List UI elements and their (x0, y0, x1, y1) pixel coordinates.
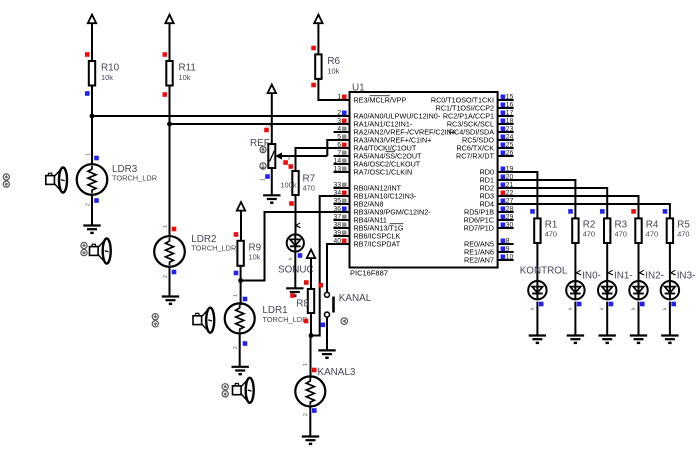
svg-text:R11: R11 (179, 63, 197, 74)
pin number k led IN2- (631, 307, 637, 310)
svg-text:RB7/ICSPDAT: RB7/ICSPDAT (354, 239, 401, 248)
pin state indicator (94, 156, 99, 161)
pot adjust control plus (260, 147, 266, 153)
svg-text:IN1-: IN1- (614, 270, 633, 281)
label LDR1 TORCH_LDR (262, 305, 307, 324)
pin number 3 pot (288, 156, 291, 162)
pin state indicator (243, 341, 248, 346)
label KANAL (339, 293, 372, 304)
svg-text:2: 2 (266, 124, 272, 127)
label KONTROL (520, 265, 568, 276)
svg-text:470: 470 (646, 230, 658, 239)
wire KANAL3 to ground (309, 406, 311, 437)
label R7 470 (303, 174, 316, 193)
photoresistor LDR2 (154, 236, 185, 267)
svg-text:17: 17 (506, 110, 514, 117)
pin 15 RC0/T1OSO/T1CKI (431, 94, 514, 105)
switch toggle control (341, 318, 348, 325)
resistor R6 (315, 54, 321, 79)
ground under KANAL switch (318, 350, 335, 357)
pin 3 RA1/AN1/C12IN1- (334, 118, 413, 129)
pin state indicator (290, 293, 295, 298)
label IN2- (645, 270, 664, 281)
pin state indicator (304, 280, 309, 285)
wire led IN2- to ground (638, 302, 640, 336)
label R3 470 (615, 219, 628, 238)
pin 10 RE2/AN7 (464, 254, 514, 265)
torch icon for LDR1 (193, 308, 214, 333)
svg-text:25: 25 (506, 142, 514, 149)
svg-text:RA7/OSC1/CLKIN: RA7/OSC1/CLKIN (354, 167, 413, 176)
pin 24 RC5/SDO (462, 134, 514, 145)
svg-text:R10: R10 (101, 63, 120, 74)
svg-text:RE2/AN7: RE2/AN7 (464, 255, 494, 264)
svg-text:KANAL: KANAL (339, 293, 372, 304)
pin state indicator (609, 302, 614, 307)
svg-text:23: 23 (506, 126, 514, 133)
svg-text:13: 13 (333, 166, 341, 173)
ground under led IN0- (567, 336, 584, 343)
pin 30 RD7/P1D (464, 222, 514, 233)
label R6 10k (327, 56, 340, 76)
led IN0- (566, 281, 584, 300)
pin 6 RA4/T0CKI/C1OUT (334, 142, 417, 153)
resistor R1 (534, 218, 540, 243)
wire R9 to node (240, 266, 242, 281)
svg-text:26: 26 (506, 150, 514, 157)
wire IN0- net from RD pin (498, 180, 576, 218)
pin 19 RD0 (480, 166, 514, 177)
pin 37 RB4/AN11 (333, 214, 387, 225)
pin 26 RC7/RX/DT (456, 150, 514, 161)
torch icon for LDR3 (46, 168, 67, 193)
svg-text:R8: R8 (296, 298, 309, 309)
wire R11 bottom to node RA1 (169, 86, 171, 125)
svg-text:33: 33 (333, 182, 341, 189)
photoresistor KANAL3 (295, 376, 325, 406)
wire pot wiper to pin5 RA3 (327, 140, 349, 156)
pin state indicator (85, 52, 90, 57)
svg-text:KONTROL: KONTROL (520, 265, 568, 276)
resistor R7 (292, 171, 298, 195)
svg-text:470: 470 (677, 230, 689, 239)
pin state indicator (530, 209, 535, 214)
pin 33 RB0/AN12/INT (333, 182, 401, 193)
svg-text:10: 10 (506, 254, 514, 261)
svg-text:RC7/RX/DT: RC7/RX/DT (456, 151, 495, 160)
ground under led IN1- (599, 336, 616, 343)
ground under LDR2 (162, 297, 179, 304)
pot adjust control minus (260, 163, 266, 169)
pin number 2 LDR2 (163, 275, 169, 278)
svg-text:29: 29 (506, 214, 514, 221)
pin 27 RD4 (480, 198, 514, 209)
wire R1 to led KONTROL (536, 243, 538, 281)
wire LDR2 to ground (169, 267, 171, 297)
pin 17 RC2/P1A/CCP1 (443, 110, 514, 121)
svg-text:28: 28 (506, 206, 514, 213)
svg-text:10k: 10k (101, 73, 113, 82)
power +V arrow above R9 (237, 202, 245, 241)
label IN3- (677, 270, 696, 281)
svg-text:2: 2 (86, 203, 92, 206)
label R4 470 (646, 219, 659, 238)
svg-text:30: 30 (506, 222, 514, 229)
pin 38 RB5/AN13/T1G (333, 222, 403, 233)
label KANAL3 (318, 367, 356, 378)
power +V arrow above R11 (165, 15, 173, 61)
label R2 470 (583, 219, 596, 238)
ground under led KONTROL (529, 336, 546, 343)
label REF (250, 138, 270, 149)
pin 14 RA6/OSC2/CLKOUT (333, 158, 420, 169)
svg-text:470: 470 (615, 230, 627, 239)
pin state indicator (289, 164, 294, 169)
label LDR2 TORCH_LDR (191, 234, 236, 252)
svg-text:37: 37 (333, 214, 341, 221)
pin state indicator (283, 160, 288, 165)
svg-text:4: 4 (337, 126, 341, 133)
pin number k led KONTROL (530, 307, 536, 310)
led IN2- (629, 281, 647, 300)
pin state indicator (321, 323, 326, 328)
wire SONUC to ground (294, 252, 296, 288)
label arrow of IN2- (640, 270, 645, 275)
svg-text:14: 14 (333, 158, 341, 165)
torch actuator controls for KANAL3 (222, 384, 228, 397)
pin 28 RD5/P1B (464, 206, 514, 217)
ground under SONUC (286, 288, 303, 295)
label R8 (296, 298, 309, 309)
svg-text:10k: 10k (249, 253, 261, 262)
pin 40 RB7/ICSPDAT (333, 238, 400, 249)
pin state indicator (671, 302, 676, 307)
ground under KANAL3 (302, 437, 319, 444)
svg-text:8: 8 (506, 238, 510, 245)
wire R4 to led IN2- (638, 243, 640, 281)
svg-text:2: 2 (303, 413, 309, 416)
power +V arrow above R10 (88, 15, 96, 61)
pin number 2 pot (266, 124, 272, 127)
label arrow of IN0- (577, 270, 582, 275)
wire pin36 RB3 net (241, 212, 350, 281)
label arrow of SONUC (296, 223, 301, 228)
svg-text:KANAL3: KANAL3 (318, 367, 356, 378)
svg-text:16: 16 (506, 102, 514, 109)
svg-text:39: 39 (333, 230, 341, 237)
pin state indicator (577, 302, 582, 307)
pin 2 RA0/AN0/ULPWU/C12IN0- (334, 110, 441, 121)
svg-text:RD7/P1D: RD7/P1D (464, 223, 494, 232)
svg-text:24: 24 (506, 134, 514, 141)
pin 4 RA2/AN2/VREF-/CVREF/C2IN+ (334, 126, 456, 137)
svg-text:TORCH_LDR: TORCH_LDR (191, 243, 236, 252)
wire KONTROL net from RD pin (498, 172, 538, 218)
torch actuator controls for LDR2 (81, 242, 87, 255)
label R9 10k (249, 243, 262, 262)
wire IN3- net from RD pin (498, 204, 670, 218)
label R10 10k (101, 63, 120, 83)
svg-text:1: 1 (261, 178, 267, 181)
svg-text:15: 15 (506, 94, 514, 101)
svg-text:TORCH_LDR: TORCH_LDR (262, 315, 307, 324)
pin 13 RA7/OSC1/CLKIN (333, 166, 412, 177)
pot REF wiper arrow (276, 153, 327, 158)
resistor R8 (308, 289, 314, 313)
pin number 1 LDR3 (86, 153, 92, 156)
svg-text:18: 18 (506, 118, 514, 125)
pin 8 RE0/AN5 (464, 238, 514, 249)
junction node RA1 (167, 122, 172, 127)
label IN0- (582, 270, 601, 281)
resistor R5 (667, 218, 673, 243)
svg-text:1: 1 (303, 363, 309, 366)
pin 21 RD2 (480, 182, 514, 193)
pin state indicator (163, 52, 168, 57)
pin state indicator (312, 368, 317, 373)
svg-text:IN3-: IN3- (677, 270, 696, 281)
pin state indicator (631, 209, 636, 214)
pin state indicator (265, 174, 270, 179)
pin state indicator (311, 46, 316, 51)
svg-text:U1: U1 (352, 83, 365, 94)
wire pin3 net RA1 (170, 123, 350, 125)
pin state indicator (539, 302, 544, 307)
pin state indicator (172, 227, 177, 232)
photoresistor LDR3 (77, 164, 108, 195)
pin 29 RD6/P1C (464, 214, 514, 225)
label SONUC (278, 264, 314, 275)
pin state indicator (264, 128, 269, 133)
wire node to KANAL3 (310, 336, 312, 379)
svg-text:RE3/MCLR/VPP: RE3/MCLR/VPP (354, 95, 407, 104)
ground under led IN3- (661, 336, 678, 343)
label R11 10k (179, 63, 197, 83)
pin number 2 LDR1 (233, 346, 239, 349)
ground under LDR1 (232, 367, 249, 374)
pin 34 RB1/AN10/C12IN3- (333, 190, 416, 201)
wire LDR3 to ground (91, 195, 93, 226)
wire led IN1- to ground (606, 302, 608, 336)
pin 39 RB6/ICSPCLK (333, 230, 400, 241)
label IN1- (614, 270, 633, 281)
power +V arrow above R8 (307, 250, 315, 290)
svg-text:10k: 10k (327, 67, 339, 76)
wire pot to ground (271, 168, 273, 195)
svg-text:IN2-: IN2- (645, 270, 664, 281)
pin number 1 pot (261, 178, 267, 181)
switch KANAL (325, 292, 334, 317)
pin number 2 KANAL3 (303, 413, 309, 416)
wire R8 to node KANAL3 (310, 313, 312, 336)
ground under LDR3 (83, 226, 100, 233)
wire pin34 RB1 net (311, 196, 350, 336)
wire pin2 net RA0 (92, 115, 350, 117)
junction node RB3 at LDR1/R9 (238, 278, 243, 283)
power +V arrow above R6 (314, 15, 322, 55)
pin state indicator (568, 209, 573, 214)
wire R3 to led IN1- (606, 243, 608, 281)
svg-text:1: 1 (86, 153, 92, 156)
svg-text:R6: R6 (327, 56, 340, 67)
svg-text:2: 2 (233, 346, 239, 349)
pin number k led IN3- (662, 307, 668, 310)
wire R5 to led IN3- (669, 243, 671, 281)
pin state indicator (234, 271, 239, 276)
wire node RA0 to LDR3 (91, 116, 93, 164)
pin number k SONUC (288, 257, 294, 260)
label PIC16F887 (350, 269, 388, 278)
pin state indicator (640, 302, 645, 307)
pin state indicator (311, 83, 316, 88)
resistor R2 (572, 218, 578, 243)
pin 23 RC4/SDI/SDA (449, 126, 514, 137)
svg-text:3: 3 (288, 156, 291, 162)
wire node RA1 to LDR2 (169, 124, 171, 236)
pin number 2 LDR3 (86, 203, 92, 206)
svg-text:470: 470 (583, 230, 595, 239)
wire switch to ground (326, 317, 328, 350)
wire R2 to led IN0- (574, 243, 576, 281)
torch icon for LDR2 (90, 239, 111, 264)
pin 36 RB3/AN9/PGM/C12IN2- (333, 206, 431, 217)
led IN3- (661, 281, 679, 300)
wire IN2- net from RD pin (498, 196, 639, 218)
svg-text:1: 1 (163, 225, 169, 228)
svg-text:38: 38 (333, 222, 341, 229)
wire IN1- net from RD pin (498, 188, 608, 218)
svg-text:PIC16F887: PIC16F887 (350, 269, 388, 278)
svg-text:REF: REF (250, 138, 270, 149)
svg-text:470: 470 (303, 184, 315, 193)
resistor R3 (604, 218, 610, 243)
label LDR3 TORCH_LDR (112, 164, 157, 182)
pin number k led IN0- (568, 307, 574, 310)
pin state indicator (312, 408, 317, 413)
pin state indicator (663, 209, 668, 214)
pin state indicator (234, 232, 239, 237)
junction node RB1 at R8/KANAL3 (309, 333, 314, 338)
svg-text:TORCH_LDR: TORCH_LDR (112, 173, 157, 182)
led SONUC (287, 234, 304, 252)
resistor R4 (635, 218, 641, 243)
svg-text:2: 2 (163, 275, 169, 278)
led IN1- (598, 281, 616, 300)
junction node RA0 (90, 114, 95, 119)
label arrow of IN1- (608, 270, 613, 275)
IC U1 PIC16F887 microcontroller body (350, 92, 498, 268)
led KONTROL (528, 281, 546, 300)
pin state indicator (172, 270, 177, 275)
ground under REF (263, 195, 280, 202)
resistor R10 (89, 61, 95, 86)
torch icon for KANAL3 (233, 378, 254, 403)
pin 9 RE1/AN6 (464, 246, 514, 257)
pin state indicator (289, 201, 294, 206)
wire node to LDR1 (240, 281, 242, 306)
pin 22 RD3 (480, 190, 514, 201)
pin number 1 KANAL3 (303, 363, 309, 366)
ground under led IN2- (630, 336, 647, 343)
pin 1 RE3/MCLR/VPP (334, 94, 407, 105)
pin state indicator (243, 297, 248, 302)
wire led IN3- to ground (669, 302, 671, 336)
pin 25 RC6/TX/CK (456, 142, 513, 153)
wire LDR1 to ground (239, 333, 241, 367)
svg-text:7: 7 (337, 150, 341, 157)
svg-text:35: 35 (333, 198, 341, 205)
svg-text:IN0-: IN0- (582, 270, 601, 281)
wire pin40 RB7 to switch KANAL (327, 244, 350, 292)
wire pin6 RA4 to R7 (296, 148, 350, 171)
pin state indicator (163, 92, 168, 97)
wire R7 to SONUC led (295, 195, 297, 234)
pin 5 RA3/AN3/VREF+/C1IN+ (334, 134, 432, 145)
label R1 470 (545, 219, 558, 238)
svg-text:1: 1 (233, 294, 239, 297)
pin state indicator (85, 91, 90, 96)
resistor R9 (237, 241, 243, 266)
pin 16 RC1/T1OSI/CCP2 (436, 102, 514, 113)
pin 20 RD1 (480, 174, 514, 185)
pin state indicator (600, 209, 605, 214)
wire led KONTROL to ground (536, 302, 538, 336)
svg-text:9: 9 (506, 246, 510, 253)
pin state indicator (319, 283, 324, 288)
pin number k led IN1- (600, 307, 606, 310)
wire R10 bottom to node RA0 (91, 86, 93, 117)
pin number 1 LDR2 (163, 225, 169, 228)
label 100k value of REF (280, 181, 296, 190)
torch actuator controls for LDR1 (152, 314, 158, 327)
pin 35 RB2/AN8 (333, 198, 383, 209)
wire R6 bottom to pin1 RE3 (318, 79, 349, 100)
svg-text:100k: 100k (280, 181, 296, 190)
pin number 1 LDR1 (233, 294, 239, 297)
resistor R11 (166, 61, 172, 86)
torch actuator controls for LDR3 (3, 174, 9, 187)
pin 18 RC3/SCK/SCL (447, 118, 514, 129)
pin state indicator (298, 253, 303, 258)
power +V arrow above REF (268, 85, 276, 145)
label arrow of IN3- (671, 270, 676, 275)
svg-text:470: 470 (545, 230, 557, 239)
label R5 470 (677, 219, 690, 238)
label U1 (352, 83, 365, 94)
potentiometer REF body (268, 144, 275, 168)
pin state indicator (304, 319, 309, 324)
svg-text:10k: 10k (179, 73, 191, 82)
wire led IN0- to ground (574, 302, 576, 336)
pin 7 RA5/AN4/SS/C2OUT (334, 150, 423, 161)
photoresistor LDR1 (225, 303, 255, 333)
pin state indicator (94, 198, 99, 203)
